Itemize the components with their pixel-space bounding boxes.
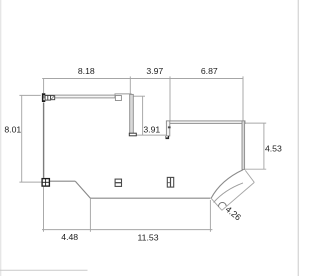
svg-text:4.48: 4.48 [61,232,78,242]
column square at top wall junction [115,96,121,101]
witness line middle x=90.4 [89,198,91,231]
dimension 3.91 dim line (center) [131,96,166,135]
wall: top-left horizontal wall (8.18 span) [44,95,115,98]
svg-text:3.91: 3.91 [143,125,160,135]
fixture symbol 1 (horizontal slots) [115,179,121,186]
wall: bottom-left horizontal wall [49,180,75,182]
witness line left x=43.5 [43,187,45,232]
wall: right horizontal wall (6.87 span) [166,121,245,124]
window symbol at bottom-left corner (square with cross) [42,179,49,187]
witness line right x=210.4 [209,200,211,232]
svg-text:11.53: 11.53 [137,233,158,243]
witness line bottom y=182.1 [19,181,43,183]
witness line at 3.97/6.87 boundary x=170 [169,76,171,120]
dimension 8.01 dim line (left) [19,95,43,182]
witness line top y=95.4 [19,94,40,96]
wall: right vertical wall [242,121,245,169]
witness line lower at corner A [211,198,222,210]
witness line top y=96.2 [134,95,146,97]
witness tick at 8.18/3.97 boundary x=130.3 [129,76,131,94]
svg-text:3.97: 3.97 [146,66,163,76]
wall step line above column square [115,94,132,95]
svg-text:6.87: 6.87 [201,66,218,76]
witness line right x=243 [242,76,244,120]
wall: left vertical wall [43,103,45,178]
arc-length symbol before 4.26 text [219,202,227,206]
wall: center vertical wall [130,94,134,134]
svg-text:8.18: 8.18 [78,66,95,76]
dimension 4.53 dim line (right) [243,123,267,169]
door jamb symbol at top-left corner: black bracket [42,93,45,102]
svg-text:8.01: 8.01 [4,124,21,134]
dimension 8.18 dim line (top) [42,76,243,120]
viewport right edge line [297,0,299,276]
fixture symbol 2 (vertical slots) [167,177,173,187]
witness line upper at corner B [245,170,254,182]
center wall bottom end cap [129,133,136,136]
bottom-left panel edge line [0,269,88,271]
wall: curved corner wall (arc) [211,170,243,199]
witness line bottom y=169.2 [243,168,266,170]
door jamb symbol: small end rectangle [51,96,55,100]
wall: bottom horizontal wall [90,197,210,199]
viewport left edge line [0,0,2,276]
wall: bottom-left diagonal wall [75,181,90,198]
wall stub below right wall left end [166,121,169,136]
witness line bottom y=135.1 [131,134,166,136]
witness line top y=123.1 [243,122,267,124]
witness line left at x=43.6 [43,79,45,94]
dimension 4.26 dim line (diagonal, bottom-right) [211,170,254,210]
stub divider tick [168,126,171,128]
stub bottom end cap [166,136,170,139]
door jamb symbol: rectangle part [45,96,50,101]
dimension 4.48 / 11.53 dim line (bottom) [42,187,212,232]
svg-text:4.53: 4.53 [265,143,282,153]
concentric dimension arc [214,183,243,203]
